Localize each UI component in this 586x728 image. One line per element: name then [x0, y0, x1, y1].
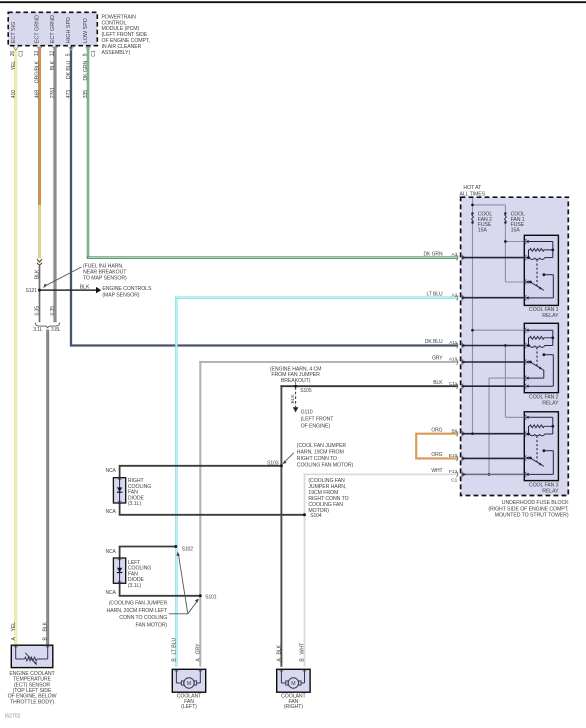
svg-text:I52702: I52702 [5, 714, 21, 720]
svg-text:GRY: GRY [432, 356, 443, 362]
svg-text:A11: A11 [449, 340, 457, 346]
svg-text:THROTTLE BODY): THROTTLE BODY) [10, 699, 54, 705]
svg-text:BLK: BLK [35, 269, 41, 279]
svg-text:DK GRN: DK GRN [424, 251, 443, 257]
svg-text:MOTOR): MOTOR) [308, 508, 329, 514]
svg-text:BLK: BLK [50, 60, 56, 70]
svg-text:E10: E10 [449, 453, 458, 459]
svg-text:(RIGHT SIDE OF ENGINE COMPT,: (RIGHT SIDE OF ENGINE COMPT, [488, 506, 568, 512]
svg-text:(RIGHT): (RIGHT) [284, 704, 303, 710]
svg-text:RELAY: RELAY [542, 488, 559, 494]
svg-text:9: 9 [83, 53, 89, 56]
svg-text:OF ENGINE): OF ENGINE) [301, 424, 331, 430]
svg-text:12: 12 [50, 51, 56, 57]
svg-text:WHT: WHT [300, 642, 306, 654]
svg-text:F12: F12 [449, 469, 457, 475]
svg-text:GRY: GRY [196, 643, 202, 655]
svg-text:HARN, 20CM FROM LEFT: HARN, 20CM FROM LEFT [107, 608, 169, 614]
svg-text:BLK: BLK [277, 644, 283, 654]
svg-text:BLK: BLK [433, 380, 443, 386]
svg-text:NCA: NCA [105, 468, 116, 474]
svg-text:ORG/BLK: ORG/BLK [35, 60, 41, 83]
svg-text:M: M [187, 681, 191, 687]
svg-text:(LEFT FRONT: (LEFT FRONT [301, 417, 335, 423]
svg-text:C1: C1 [19, 50, 25, 57]
svg-text:C11: C11 [449, 381, 458, 387]
svg-text:HARN, 19CM FROM: HARN, 19CM FROM [297, 450, 344, 456]
svg-text:(COOLING FAN JUMPER: (COOLING FAN JUMPER [109, 601, 168, 607]
svg-text:A3: A3 [451, 252, 457, 258]
svg-text:469: 469 [35, 90, 41, 99]
svg-text:15A: 15A [478, 227, 488, 233]
svg-text:A2: A2 [451, 292, 457, 298]
svg-text:B6: B6 [451, 428, 457, 434]
svg-text:LT BLU: LT BLU [172, 638, 178, 655]
svg-text:15A: 15A [511, 227, 521, 233]
svg-text:A10: A10 [449, 357, 458, 363]
svg-text:MOUNTED TO STRUT TOWER): MOUNTED TO STRUT TOWER) [495, 513, 569, 519]
svg-text:DK BLU: DK BLU [66, 60, 72, 79]
svg-text:(3.1L): (3.1L) [128, 583, 141, 589]
svg-text:26: 26 [10, 51, 16, 57]
svg-text:ENGINE CONTROLS: ENGINE CONTROLS [102, 286, 152, 292]
svg-text:LT BLU: LT BLU [426, 291, 442, 297]
svg-text:ECT SIG: ECT SIG [11, 22, 17, 44]
svg-text:ORG: ORG [431, 427, 442, 433]
svg-text:ECT GRND: ECT GRND [35, 15, 41, 43]
svg-text:C1: C1 [451, 478, 457, 484]
svg-text:ASSEMBLY): ASSEMBLY) [102, 50, 131, 56]
svg-text:0.35: 0.35 [35, 306, 41, 316]
svg-text:BLK: BLK [42, 621, 48, 631]
svg-text:ECT GRND: ECT GRND [50, 15, 56, 43]
svg-text:(MAP SENSOR): (MAP SENSOR) [102, 293, 139, 299]
svg-text:473: 473 [66, 90, 72, 99]
svg-text:NCA: NCA [105, 590, 116, 596]
svg-text:HIGH SPD: HIGH SPD [66, 17, 72, 43]
svg-text:(3.1L): (3.1L) [128, 501, 141, 507]
svg-text:S105: S105 [300, 388, 312, 394]
svg-text:BLK: BLK [80, 284, 90, 290]
svg-text:G110: G110 [301, 409, 313, 415]
svg-text:HOT AT: HOT AT [463, 185, 482, 191]
svg-text:S121: S121 [25, 288, 37, 294]
svg-text:13: 13 [34, 51, 40, 57]
svg-text:ORG: ORG [431, 452, 442, 458]
svg-text:C1: C1 [91, 50, 97, 57]
svg-text:DK GRN: DK GRN [83, 60, 89, 80]
svg-text:UNDERHOOD FUSE BLOCK: UNDERHOOD FUSE BLOCK [502, 500, 569, 506]
svg-text:TO MAP SENSOR): TO MAP SENSOR) [83, 276, 127, 282]
svg-text:DK BLU: DK BLU [425, 339, 443, 345]
svg-text:S102: S102 [182, 547, 194, 553]
svg-text:(COOL FAN JUMPER: (COOL FAN JUMPER [297, 443, 347, 449]
svg-text:BLK: BLK [290, 394, 296, 404]
svg-text:M: M [291, 681, 295, 687]
svg-text:LOW SPD: LOW SPD [83, 18, 89, 43]
svg-text:YEL: YEL [11, 61, 17, 71]
svg-text:RELAY: RELAY [542, 313, 559, 319]
svg-text:CONN TO COOLING: CONN TO COOLING [119, 615, 167, 621]
svg-text:NCA: NCA [105, 549, 116, 555]
svg-text:5: 5 [66, 53, 72, 56]
svg-text:RELAY: RELAY [542, 400, 559, 406]
svg-text:RIGHT CONN TO: RIGHT CONN TO [297, 456, 337, 462]
svg-text:NEAR BREAKOUT: NEAR BREAKOUT [83, 269, 127, 275]
svg-text:S103: S103 [267, 461, 279, 467]
svg-text:NCA: NCA [105, 509, 116, 515]
svg-text:335: 335 [83, 90, 89, 99]
svg-text:S101: S101 [205, 595, 217, 601]
svg-text:FAN MOTOR): FAN MOTOR) [136, 622, 168, 628]
svg-text:3.1L: 3.1L [33, 327, 43, 333]
svg-text:410: 410 [11, 90, 17, 99]
svg-text:(LEFT): (LEFT) [181, 704, 197, 710]
svg-text:ALL TIMES: ALL TIMES [460, 191, 486, 197]
svg-text:2761: 2761 [50, 87, 56, 98]
svg-text:3.8L: 3.8L [51, 327, 61, 333]
svg-text:COOLING FAN MOTOR): COOLING FAN MOTOR) [297, 463, 354, 469]
svg-text:(FUEL INJ HARN,: (FUEL INJ HARN, [83, 263, 123, 269]
svg-text:WHT: WHT [431, 468, 442, 474]
svg-text:YEL: YEL [11, 622, 17, 632]
svg-text:0.35: 0.35 [50, 306, 56, 316]
